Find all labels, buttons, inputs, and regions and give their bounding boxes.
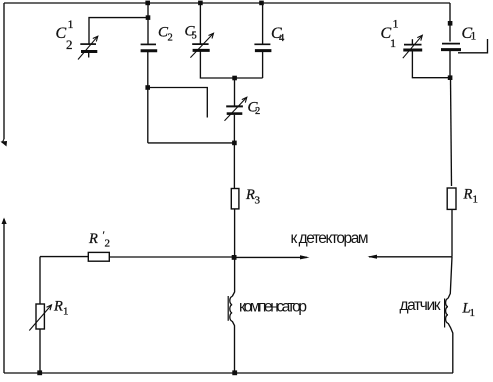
svg-text:2: 2: [105, 238, 111, 250]
node dot C'2 junction: [146, 15, 151, 20]
svg-text:1: 1: [390, 36, 396, 50]
wire C'1 bottom lead: [412, 50, 450, 78]
wire R3 bottom lead: [232, 209, 234, 297]
svg-text:1: 1: [470, 307, 476, 319]
svg-text:R: R: [53, 299, 63, 315]
capacitor C4 plates: [254, 43, 270, 45]
wire L1 bottom lead: [448, 323, 453, 373]
wire C5 top lead: [199, 3, 201, 44]
wire компенсатор bottom lead: [232, 321, 234, 373]
svg-text:компенсатор: компенсатор: [239, 299, 307, 316]
node dot on right rail: [448, 21, 453, 26]
capacitor C'2 bottom stub: [88, 53, 90, 58]
node dot detector junction: [232, 255, 237, 260]
node dot top rail C4 branch: [259, 1, 264, 6]
svg-text:1: 1: [63, 306, 69, 318]
svg-text:1: 1: [393, 17, 399, 31]
svg-text:2: 2: [168, 33, 173, 44]
svg-text:C: C: [56, 25, 67, 42]
capacitor C'2 arrow: [78, 36, 98, 59]
wire bottom rail: [4, 372, 453, 374]
wire R'2 corner down to R1: [39, 257, 41, 304]
arrow end of upper left rail: [2, 139, 4, 143]
wire R1 left bottom lead: [39, 329, 41, 373]
node dot C'1 junction: [448, 75, 453, 80]
capacitor C5 plates: [192, 43, 208, 45]
svg-text:2: 2: [255, 106, 260, 117]
capacitor C'2 plates: [80, 43, 96, 45]
svg-text:1: 1: [471, 31, 477, 43]
node dot bottom left junction: [37, 370, 42, 375]
inductor компенсатор winding: [230, 297, 232, 322]
node dot top rail C5 branch: [198, 1, 203, 6]
resistor R1 left: [36, 304, 44, 329]
capacitor C5 arrow: [190, 33, 213, 57]
wire left rail upper segment: [3, 3, 5, 139]
wire detector lead right with arrow: [369, 256, 452, 258]
svg-text:1: 1: [68, 17, 74, 31]
wire C4 top lead: [262, 3, 264, 44]
wire right rail below R1: [451, 209, 453, 256]
resistor R1 right: [447, 188, 456, 209]
resistor R'2: [88, 252, 109, 261]
wire C2 bottom lead: [147, 52, 149, 143]
resistor R1 left arrow: [29, 305, 51, 331]
resistor R3: [231, 189, 239, 209]
capacitor C1 plates: [442, 43, 460, 45]
wire C5 bottom lead: [200, 51, 262, 78]
wire right rail top: [449, 3, 451, 42]
wire right rail to R1: [451, 78, 452, 186]
wire C4 bottom lead: [262, 52, 264, 78]
svg-text:R: R: [88, 231, 98, 247]
wire left rail lower segment: [3, 219, 5, 373]
wire open stub: [148, 88, 207, 118]
capacitor C'1 arrow: [403, 35, 423, 58]
wire right rail below C1: [449, 51, 451, 78]
svg-text:1: 1: [473, 194, 479, 206]
capacitor C'1 top stub: [411, 39, 413, 44]
node dot C5-C4 junction: [232, 76, 237, 81]
node dot at middle junction: [232, 141, 237, 146]
svg-text:R: R: [463, 187, 473, 203]
inductor L1 core: [444, 299, 446, 328]
svg-text:к детекторам: к детекторам: [291, 230, 369, 247]
wire C2 middle bottom lead: [233, 115, 235, 188]
svg-text:2: 2: [66, 37, 73, 52]
capacitor C'1 plates: [404, 44, 422, 46]
wire R'2 horizontal: [40, 256, 234, 258]
wire detector lead left with arrow: [234, 256, 307, 258]
node dot stub junction: [145, 85, 150, 90]
wire horizontal joining middle branch: [148, 142, 235, 144]
capacitor C2 middle plates: [226, 105, 243, 107]
arrow start of lower left rail: [2, 218, 7, 225]
inductor L1 winding: [446, 299, 448, 324]
capacitor C2 middle arrow: [225, 97, 247, 121]
wire hook right of C1: [458, 39, 488, 53]
wire from top rail down to C2: [147, 3, 149, 44]
node dot top rail left branch: [145, 1, 150, 6]
wire top rail: [4, 2, 450, 4]
svg-text:датчик: датчик: [400, 297, 441, 314]
capacitor C2 plates: [141, 43, 156, 45]
svg-text:5: 5: [192, 31, 197, 42]
svg-text:R: R: [245, 187, 255, 203]
wire middle branch to C2 var: [234, 78, 236, 106]
node dot bottom компенсатор: [232, 370, 237, 375]
inductor компенсатор core: [227, 296, 229, 321]
svg-text:4: 4: [279, 33, 285, 44]
svg-text:3: 3: [255, 195, 261, 207]
wire right rail to L1: [448, 257, 452, 299]
wire C'2 top lead: [89, 18, 148, 44]
